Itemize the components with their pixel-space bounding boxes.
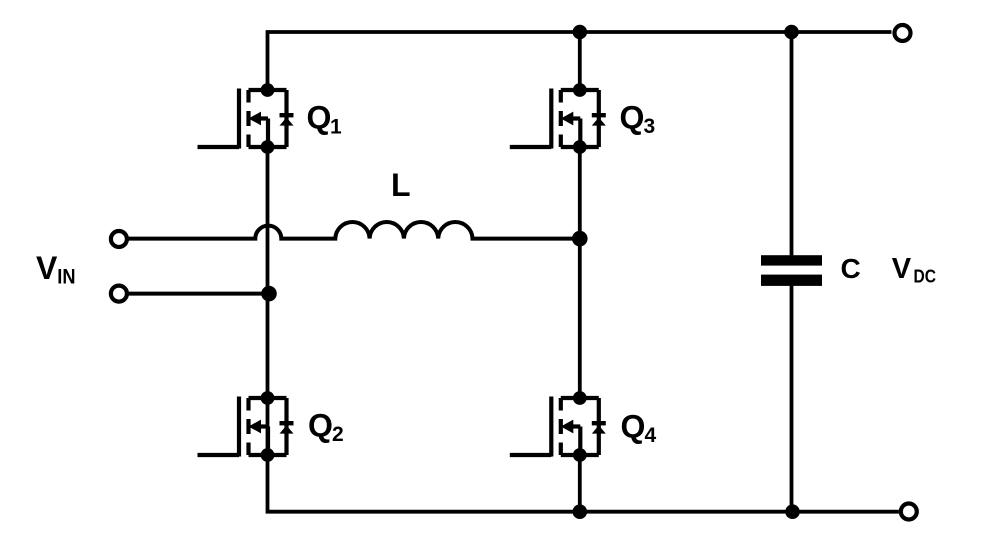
- svg-text:V: V: [892, 253, 912, 285]
- svg-text:2: 2: [332, 423, 344, 446]
- svg-text:DC: DC: [914, 266, 937, 286]
- svg-text:1: 1: [330, 115, 342, 138]
- svg-text:Q: Q: [621, 409, 646, 445]
- svg-text:Q: Q: [308, 408, 333, 444]
- svg-text:Q: Q: [307, 99, 332, 135]
- svg-text:C: C: [841, 253, 861, 284]
- svg-text:V: V: [36, 250, 58, 286]
- svg-text:Q: Q: [620, 100, 645, 136]
- svg-text:4: 4: [645, 424, 657, 447]
- svg-text:3: 3: [644, 115, 656, 138]
- svg-text:IN: IN: [57, 266, 75, 289]
- svg-text:L: L: [391, 167, 411, 203]
